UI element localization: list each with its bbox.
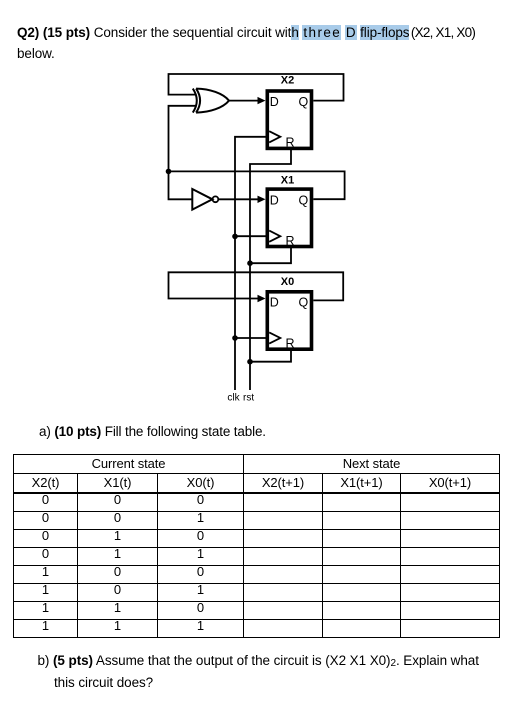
arrowhead into X0.D xyxy=(258,295,266,302)
wire X0 feedback loop xyxy=(169,272,344,300)
flip-flop X2 clock triangle xyxy=(269,131,280,142)
flip-flop X0 clock triangle xyxy=(269,332,280,343)
svg-text:Q: Q xyxy=(299,194,309,208)
node junction leftV/X1 rail xyxy=(166,169,172,175)
wire leftV XOR bottom stub xyxy=(169,106,197,200)
paragraph b) xyxy=(38,652,508,692)
node junction rst/X1 xyxy=(247,260,253,266)
paragraph a) xyxy=(39,424,266,439)
svg-text:X2: X2 xyxy=(281,75,294,87)
arrowhead into X2.D xyxy=(258,97,266,104)
arrowhead into X1.D xyxy=(258,196,266,203)
svg-text:D: D xyxy=(270,194,279,208)
node junction rst/X0 xyxy=(247,359,253,365)
wire X0.R to rst xyxy=(250,350,291,362)
svg-text:Q: Q xyxy=(299,95,309,109)
svg-text:D: D xyxy=(270,95,279,109)
svg-text:rst: rst xyxy=(243,392,254,403)
flip-flop X0 box xyxy=(267,292,311,349)
wire inverter output to X1.D xyxy=(218,198,259,200)
flip-flop X1 box xyxy=(267,189,311,246)
svg-text:X0: X0 xyxy=(281,276,294,288)
wire XOR output to X2.D xyxy=(229,100,259,102)
svg-text:clk: clk xyxy=(227,392,240,403)
wire X2 feedback top rail xyxy=(169,74,344,101)
wire clk branch to X1 xyxy=(235,235,266,237)
paragraph Q2 xyxy=(17,22,497,64)
svg-text:R: R xyxy=(285,234,294,248)
wire clk branch to X0 xyxy=(235,337,266,339)
xor gate G1 xyxy=(193,89,197,113)
svg-text:X1: X1 xyxy=(281,175,294,187)
node junction clk/X1 xyxy=(232,234,238,240)
svg-text:D: D xyxy=(270,296,279,310)
inverter gate G2 xyxy=(192,189,212,210)
node junction clk/X0 xyxy=(232,335,238,341)
flip-flop X1 clock triangle xyxy=(269,231,280,242)
svg-text:R: R xyxy=(285,136,294,150)
wire X1.Q to XOR bottom input and inverter input xyxy=(169,171,345,199)
wire clk net xyxy=(235,137,266,390)
svg-text:R: R xyxy=(285,337,294,351)
wire X1.R to rst xyxy=(250,247,291,263)
svg-text:Q: Q xyxy=(299,296,309,310)
state table xyxy=(13,454,500,638)
flip-flop X2 box xyxy=(267,91,311,148)
circuit schematic xyxy=(150,60,365,408)
wire rst net from X2.R xyxy=(250,149,291,391)
